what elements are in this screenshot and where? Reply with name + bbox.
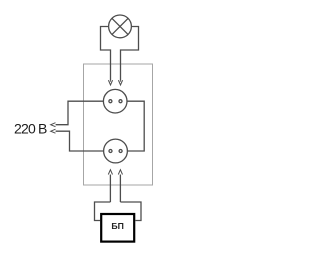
svg-text:220 В: 220 В <box>14 121 47 137</box>
svg-text:БП: БП <box>111 221 124 231</box>
